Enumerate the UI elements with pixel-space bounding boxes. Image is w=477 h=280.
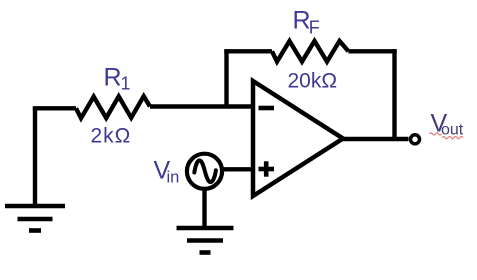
- wire: [224, 49, 272, 53]
- svg-text:in: in: [167, 169, 180, 187]
- wire: [349, 49, 397, 53]
- svg-text:1: 1: [121, 74, 131, 94]
- resistor RF: [272, 41, 349, 62]
- wire: [202, 189, 206, 227]
- wire: [224, 49, 228, 108]
- label Vout: [430, 109, 464, 138]
- wire: [222, 167, 253, 171]
- label RF: [293, 7, 320, 38]
- svg-text:2kΩ: 2kΩ: [91, 125, 132, 148]
- wire: [343, 137, 409, 141]
- label 2kΩ: [91, 125, 132, 148]
- ground: [177, 228, 234, 253]
- label R1: [104, 64, 131, 94]
- svg-text:F: F: [309, 17, 320, 37]
- op-amp U1: [253, 81, 343, 196]
- svg-text:R: R: [104, 64, 122, 92]
- wire: [150, 104, 253, 108]
- label 20kΩ: [288, 70, 338, 93]
- source Vin: [187, 154, 222, 189]
- ground: [5, 206, 65, 231]
- wire: [392, 49, 396, 139]
- wire: [33, 107, 37, 204]
- label Vin: [154, 157, 180, 187]
- resistor R1: [76, 96, 150, 118]
- svg-text:out: out: [441, 122, 464, 139]
- wire: [33, 106, 76, 110]
- svg-text:20kΩ: 20kΩ: [288, 70, 338, 93]
- node Vout terminal: [411, 135, 420, 144]
